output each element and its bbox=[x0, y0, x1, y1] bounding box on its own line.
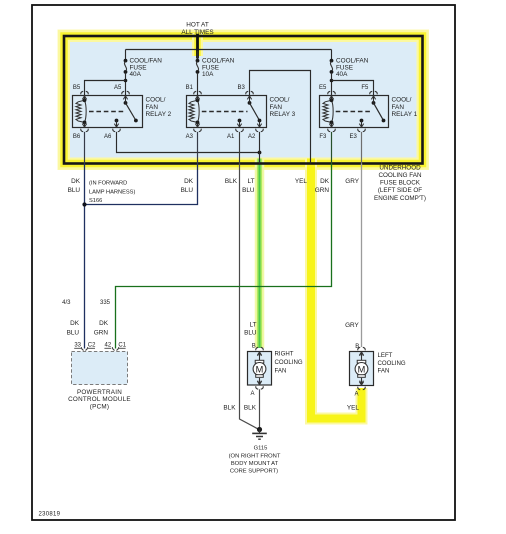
svg-text:BLK: BLK bbox=[244, 405, 257, 412]
PCM pin 42 terminal bbox=[112, 347, 118, 350]
svg-text:10A: 10A bbox=[202, 71, 214, 78]
svg-text:B6: B6 bbox=[73, 134, 81, 140]
junction A6/A2 bbox=[258, 151, 262, 155]
wire: DK GRN from F3 to PCM pin 42 bbox=[116, 164, 332, 349]
svg-text:FAN: FAN bbox=[378, 368, 390, 375]
svg-text:40A: 40A bbox=[130, 71, 142, 78]
svg-text:G115: G115 bbox=[254, 446, 268, 452]
svg-text:F5: F5 bbox=[361, 85, 369, 91]
svg-text:COOLING: COOLING bbox=[275, 359, 303, 366]
svg-text:(ON RIGHT FRONT: (ON RIGHT FRONT bbox=[229, 453, 281, 459]
wire: branch to B5 bbox=[85, 81, 126, 96]
pin F3 bbox=[328, 124, 335, 132]
svg-text:GRY: GRY bbox=[345, 322, 359, 329]
svg-text:CORE SUPPORT): CORE SUPPORT) bbox=[230, 469, 278, 475]
left cooling fan box bbox=[350, 352, 374, 386]
fuse COOL/FAN FUSE 40A (right) bbox=[330, 59, 334, 74]
svg-text:230819: 230819 bbox=[39, 512, 61, 518]
svg-text:CONTROL MODULE: CONTROL MODULE bbox=[68, 396, 131, 403]
svg-text:BLU: BLU bbox=[67, 329, 80, 336]
fuse COOL/FAN FUSE 10A (middle) bbox=[196, 59, 200, 74]
relay 2 coil bbox=[76, 98, 86, 124]
wire: B3 feed from YEL riser bbox=[250, 71, 311, 164]
wire: relay 2 A6 to A2 riser bbox=[117, 132, 260, 153]
wire: E3 output down through block bbox=[361, 132, 363, 164]
wire: hot feed vertical (thick) bbox=[196, 34, 199, 59]
svg-text:DK: DK bbox=[99, 320, 109, 327]
underhood fuse block body bbox=[64, 36, 423, 164]
PCM pin 33 terminal bbox=[81, 347, 87, 350]
yellow highlight on YEL fan wire bbox=[311, 159, 362, 419]
svg-text:DK: DK bbox=[71, 178, 81, 185]
svg-text:BLU: BLU bbox=[68, 187, 81, 194]
svg-text:COOL/: COOL/ bbox=[392, 97, 412, 104]
relay 3 coil bbox=[189, 98, 199, 124]
svg-text:LEFT: LEFT bbox=[378, 352, 393, 359]
svg-text:DK: DK bbox=[70, 320, 80, 327]
pin B3 bbox=[246, 91, 253, 99]
svg-text:E5: E5 bbox=[319, 85, 327, 91]
PCM box bbox=[72, 352, 128, 385]
svg-text:(IN FORWARD: (IN FORWARD bbox=[89, 181, 127, 187]
junction below fuse 1 bbox=[330, 79, 334, 83]
svg-text:FAN: FAN bbox=[146, 104, 159, 111]
svg-text:(LEFT SIDE OF: (LEFT SIDE OF bbox=[378, 187, 422, 194]
svg-text:YEL: YEL bbox=[347, 405, 360, 412]
pin A5 bbox=[122, 91, 129, 99]
relay 2 coil stubs bbox=[84, 96, 86, 101]
svg-text:BLK: BLK bbox=[223, 405, 236, 412]
svg-text:FAN: FAN bbox=[275, 368, 287, 375]
relay 1 coil stubs bbox=[331, 96, 333, 101]
svg-text:S166: S166 bbox=[89, 198, 102, 204]
relay 1 coil bbox=[323, 98, 333, 124]
right cooling fan box bbox=[248, 352, 272, 386]
svg-text:40A: 40A bbox=[336, 71, 348, 78]
svg-text:A5: A5 bbox=[114, 85, 122, 91]
wire: bus drop to fuse 2 bbox=[125, 50, 127, 61]
green highlight on LT BLU fan wire bbox=[255, 159, 265, 349]
relay COOL/FAN RELAY 2 box bbox=[73, 96, 143, 128]
svg-text:BLU: BLU bbox=[244, 330, 257, 337]
svg-text:A2: A2 bbox=[248, 134, 256, 140]
relay 3 switch bbox=[248, 101, 252, 105]
relay 2 contact at A6 bbox=[115, 119, 119, 123]
splice S166 bbox=[82, 202, 86, 206]
wire: BLK from right fan A to ground bbox=[259, 389, 261, 429]
svg-text:A1: A1 bbox=[227, 134, 235, 140]
pin B1 bbox=[194, 91, 201, 99]
pin E5 bbox=[328, 91, 335, 99]
wire: branch to F5 bbox=[332, 81, 374, 96]
wire: A3 output down through block bbox=[197, 132, 199, 164]
pin E3 bbox=[358, 124, 365, 132]
svg-text:BLK: BLK bbox=[225, 178, 238, 185]
relay 3 actuating dashed link bbox=[202, 111, 248, 113]
wire: DK BLU from B6 to PCM pin 33 bbox=[84, 164, 86, 349]
svg-text:BLU: BLU bbox=[242, 187, 255, 194]
svg-text:FUSE BLOCK: FUSE BLOCK bbox=[380, 180, 421, 187]
svg-text:HOT AT: HOT AT bbox=[186, 21, 209, 28]
svg-text:335: 335 bbox=[100, 300, 111, 306]
yellow highlight on fuse block outline bbox=[63, 35, 425, 166]
svg-text:C2: C2 bbox=[88, 343, 96, 349]
ground junction G115 bbox=[257, 427, 262, 432]
relay 2 actuating dashed link bbox=[89, 111, 124, 113]
ground symbol bbox=[259, 430, 261, 434]
svg-text:GRY: GRY bbox=[345, 178, 359, 185]
svg-text:RELAY 2: RELAY 2 bbox=[146, 111, 172, 118]
relay 3 contact at A1 bbox=[238, 119, 242, 123]
pin A1 bbox=[236, 124, 243, 132]
pin B6 bbox=[81, 124, 88, 132]
svg-text:A: A bbox=[250, 391, 254, 397]
svg-text:GRN: GRN bbox=[315, 187, 330, 194]
wire: DK BLU from A3 to splice S166 bbox=[85, 164, 198, 205]
left fan motor M2 bbox=[355, 352, 368, 385]
yellow highlight on hot feed wire bbox=[192, 33, 203, 56]
wire: fuse 2 output down to A5 bbox=[125, 73, 127, 96]
svg-text:A: A bbox=[354, 392, 358, 398]
fuse block border bbox=[64, 36, 423, 164]
wire: fuse distribution bus bbox=[126, 49, 332, 51]
svg-text:DK: DK bbox=[320, 178, 330, 185]
relay COOL/FAN RELAY 3 box bbox=[187, 96, 267, 128]
svg-text:B1: B1 bbox=[186, 85, 194, 91]
svg-text:42: 42 bbox=[105, 343, 112, 349]
svg-text:B: B bbox=[252, 344, 256, 350]
svg-text:RELAY 1: RELAY 1 bbox=[392, 111, 418, 118]
wire: F3 output down through block bbox=[331, 132, 333, 164]
svg-text:E3: E3 bbox=[350, 134, 358, 140]
svg-text:C1: C1 bbox=[118, 343, 126, 349]
svg-text:B5: B5 bbox=[73, 85, 81, 91]
wire: A2 output down through block bbox=[259, 132, 261, 164]
svg-text:B3: B3 bbox=[238, 85, 246, 91]
svg-text:COOL/: COOL/ bbox=[146, 97, 166, 104]
svg-text:COOLING: COOLING bbox=[378, 360, 406, 367]
svg-text:BLU: BLU bbox=[181, 187, 194, 194]
wire: BLK from A1 down to ground junction bbox=[240, 164, 258, 429]
svg-text:RIGHT: RIGHT bbox=[275, 351, 294, 358]
svg-text:COOLING FAN: COOLING FAN bbox=[378, 172, 421, 179]
pin B5 bbox=[81, 91, 88, 99]
wire: GRY from E3 to left fan B bbox=[361, 164, 363, 348]
svg-text:UNDERHOOD: UNDERHOOD bbox=[379, 164, 421, 171]
svg-text:POWERTRAIN: POWERTRAIN bbox=[77, 389, 122, 396]
svg-text:GRN: GRN bbox=[94, 329, 109, 336]
svg-text:ENGINE COMP'T): ENGINE COMP'T) bbox=[374, 195, 426, 202]
relay 1 actuating dashed link bbox=[336, 111, 371, 113]
svg-text:LT: LT bbox=[250, 321, 257, 328]
pin A3 bbox=[194, 124, 201, 132]
svg-text:RELAY 3: RELAY 3 bbox=[270, 111, 296, 118]
junction below fuse 2 bbox=[124, 79, 128, 83]
svg-text:LT: LT bbox=[248, 178, 255, 185]
wire: bus drop to fuse 1 bbox=[331, 50, 333, 61]
svg-text:(PCM): (PCM) bbox=[90, 403, 109, 410]
right fan pin B bbox=[256, 347, 263, 355]
left fan pin A bbox=[358, 382, 365, 390]
svg-text:FAN: FAN bbox=[392, 104, 405, 111]
wire: B6 output down through block bbox=[84, 132, 86, 164]
right fan pin A bbox=[256, 381, 263, 389]
svg-text:LAMP HARNESS): LAMP HARNESS) bbox=[89, 189, 135, 195]
svg-text:33: 33 bbox=[74, 343, 81, 349]
relay 2 switch bbox=[124, 101, 128, 105]
svg-text:4/3: 4/3 bbox=[62, 300, 71, 306]
wire: fuse 3 output down to B1 bbox=[197, 73, 199, 96]
svg-text:COOL/: COOL/ bbox=[270, 97, 290, 104]
svg-text:B: B bbox=[355, 344, 359, 350]
pin A2 bbox=[256, 124, 263, 132]
relay 3 coil stubs bbox=[197, 96, 199, 101]
relay 1 switch bbox=[372, 101, 376, 105]
svg-text:DK: DK bbox=[184, 178, 194, 185]
wire: hot feed continuation to fuse 3 bbox=[197, 50, 199, 61]
pin F5 bbox=[370, 91, 377, 99]
fuse COOL/FAN FUSE 40A (left) bbox=[124, 59, 128, 74]
pin A6 bbox=[113, 124, 120, 132]
svg-text:A3: A3 bbox=[186, 134, 194, 140]
relay 1 contact at E3 bbox=[360, 119, 364, 123]
svg-text:A6: A6 bbox=[104, 134, 112, 140]
wire: fuse 1 output down to E5 bbox=[331, 73, 333, 96]
right fan motor M1 bbox=[253, 352, 266, 385]
left fan pin B bbox=[358, 347, 365, 355]
junction at hot feed and bus bbox=[196, 48, 199, 51]
svg-text:YEL: YEL bbox=[295, 178, 308, 185]
relay COOL/FAN RELAY 1 box bbox=[320, 96, 389, 128]
wire: A1 output down through block bbox=[239, 132, 241, 164]
svg-text:BODY MOUNT AT: BODY MOUNT AT bbox=[231, 461, 279, 467]
svg-text:FAN: FAN bbox=[270, 104, 283, 111]
svg-text:F3: F3 bbox=[319, 134, 327, 140]
